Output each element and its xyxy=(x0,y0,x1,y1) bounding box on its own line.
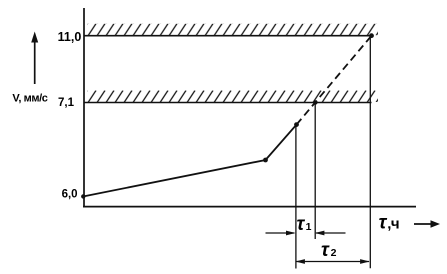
data point at end of solid segment xyxy=(294,122,299,127)
y-axis xyxy=(83,8,85,207)
tau2 dimension double arrow xyxy=(295,259,369,264)
curve dashed extrapolation xyxy=(297,36,372,125)
svg-text:τ: τ xyxy=(321,240,330,261)
x-axis label arrow xyxy=(414,220,440,227)
dropline from solid-segment end xyxy=(295,125,297,269)
svg-text:V, мм/с: V, мм/с xyxy=(12,93,47,105)
svg-text:2: 2 xyxy=(331,247,337,259)
x-axis xyxy=(83,206,416,208)
upper limit band 11.0 xyxy=(84,24,378,36)
svg-text:11,0: 11,0 xyxy=(58,30,82,44)
curve solid segment xyxy=(83,125,297,197)
svg-text:6,0: 6,0 xyxy=(62,188,78,200)
svg-text:1: 1 xyxy=(306,221,312,233)
lower limit band 7.1 xyxy=(84,91,378,103)
tau1 dimension, right arrow xyxy=(315,231,346,236)
tau1 dimension, left arrow xyxy=(266,231,296,236)
data point at bend xyxy=(263,158,268,163)
svg-text:7,1: 7,1 xyxy=(58,97,75,109)
data point at 11.0 crossing xyxy=(369,33,374,38)
data point at 7.1 crossing xyxy=(313,100,317,104)
svg-text:,ч: ,ч xyxy=(387,216,399,233)
dropline from 7.1 crossing xyxy=(314,103,316,240)
y-axis label arrow xyxy=(31,32,38,85)
data point at 6.0 xyxy=(81,194,85,198)
svg-text:τ: τ xyxy=(297,214,306,235)
dropline from 11.0 crossing xyxy=(369,36,371,269)
